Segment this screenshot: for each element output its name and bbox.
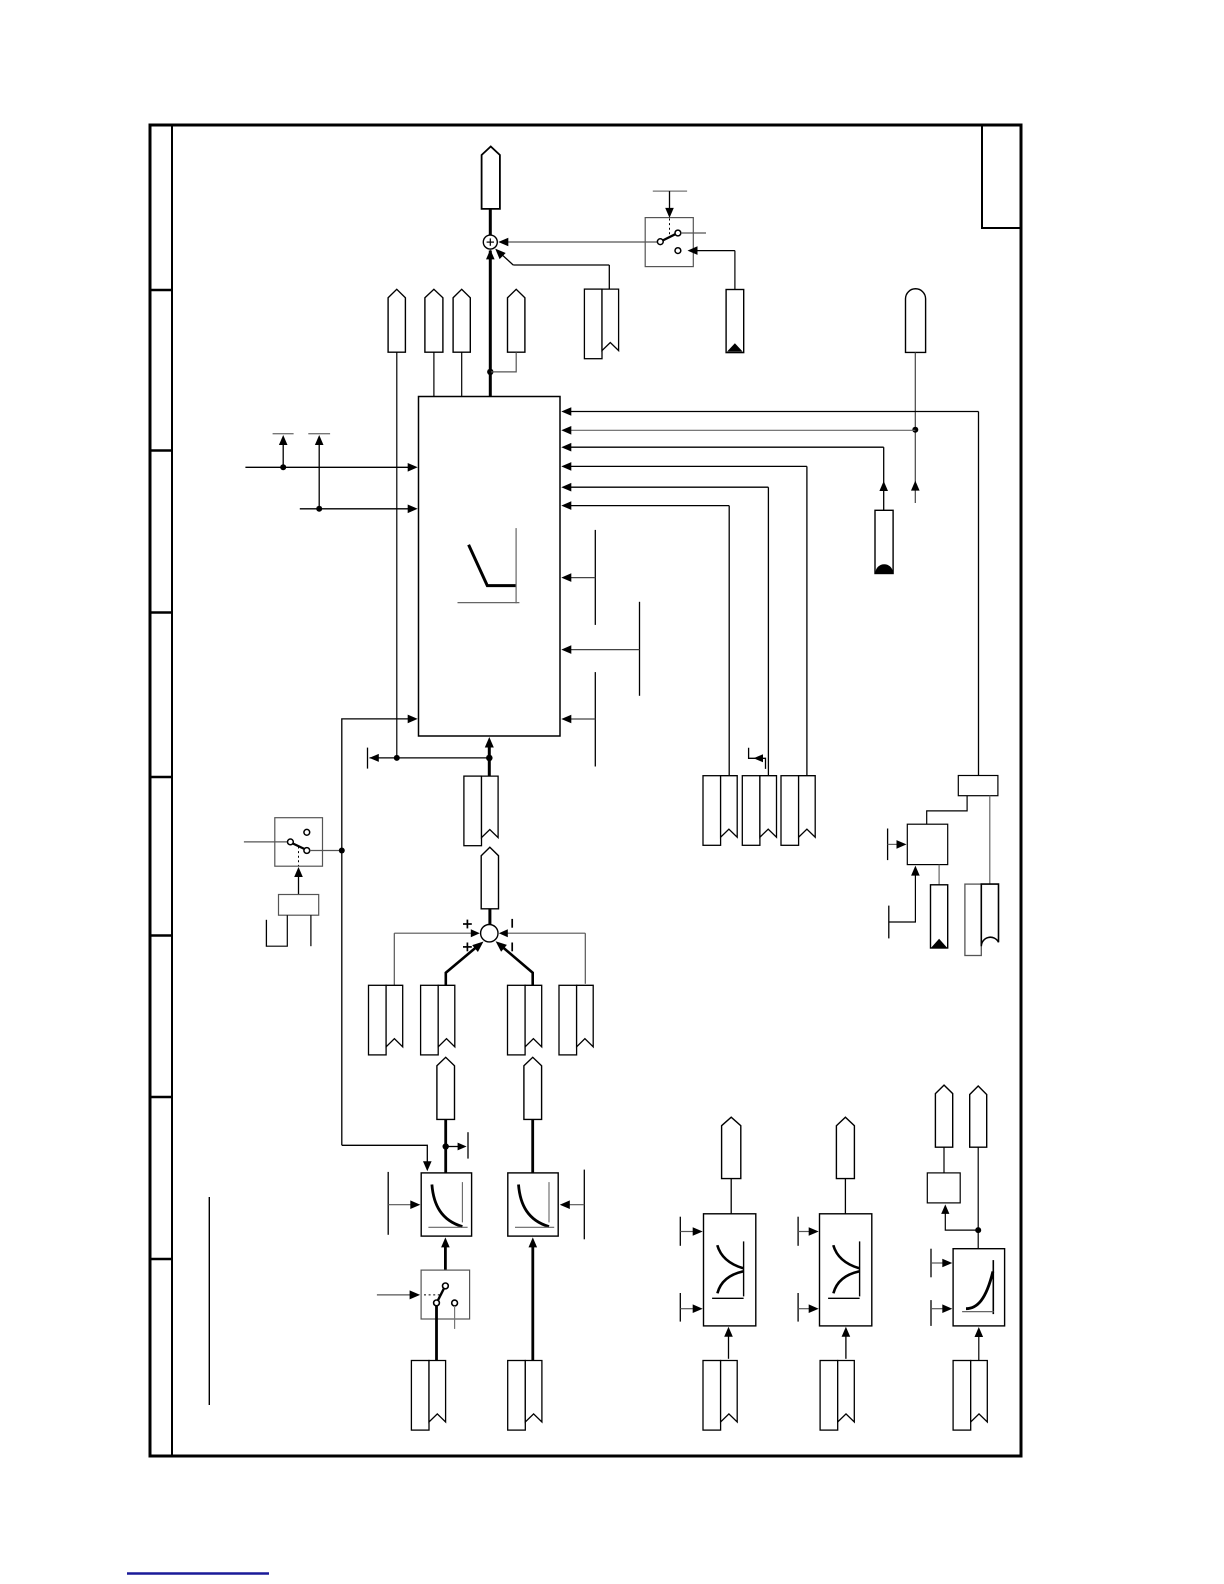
margin divider 7 <box>149 1258 172 1261</box>
wire T2 down with arrow stub <box>911 352 920 503</box>
wire K4 to block <box>461 352 463 396</box>
arch flag AF (connector) <box>965 884 999 955</box>
wire S2 output <box>310 848 345 854</box>
filter block FL1 <box>421 1173 471 1236</box>
parameter T-bar P12 <box>680 1217 702 1246</box>
top-right corner tab <box>982 126 1020 228</box>
tap wire to T-bar P8 <box>368 748 490 769</box>
wire flag G2 to SUM2 (diagonal) <box>446 942 484 986</box>
flag B1 (double flag to SUM1) <box>584 289 618 359</box>
flag G2 <box>421 985 455 1055</box>
wire K11 to box SQ <box>943 1147 945 1173</box>
switch S2 box <box>275 818 323 867</box>
switch S1 dashed control line <box>669 219 671 238</box>
flag B2 (double flag) <box>464 776 498 846</box>
flag H1 <box>411 1361 445 1431</box>
left margin column line <box>171 125 173 1456</box>
wire RG input r1 <box>561 407 978 775</box>
connector flag K6 <box>481 847 498 909</box>
wire SB to arch flag <box>989 796 991 884</box>
wire S2 to filter FL1 top <box>342 1145 432 1171</box>
wire flag G3 to SUM2 (diagonal) <box>496 941 533 985</box>
wire input line 1 to RG <box>245 463 417 472</box>
stray vertical line <box>208 1197 210 1405</box>
switch S3 contact b <box>434 1300 440 1306</box>
block M <box>907 824 947 864</box>
minus sign upper right <box>511 919 513 928</box>
wire flag J3 to EX <box>975 1327 984 1361</box>
wire into RG bottom <box>485 737 494 776</box>
switch S2 dashed control line <box>298 847 300 866</box>
flag J2 <box>820 1361 854 1431</box>
margin divider 6 <box>149 1096 172 1099</box>
wire input line 2 to RG <box>300 505 418 514</box>
wire RG input r5 <box>561 483 768 776</box>
wire flag B1 to SUM1 (diagonal) <box>495 249 609 290</box>
wire flag J2 to CH2 <box>842 1327 851 1359</box>
flag F_B <box>742 776 776 846</box>
FL1 decay curve <box>428 1182 467 1227</box>
wire flag J1 to CH1 <box>724 1327 733 1359</box>
parameter T-bar P16 <box>931 1249 952 1278</box>
tap to T-bar P9 <box>446 1132 468 1158</box>
switch S2 lever <box>293 844 305 850</box>
control arrow into S3 <box>377 1290 420 1299</box>
connector flag K11 <box>935 1085 952 1147</box>
switch S1 contact b <box>675 230 681 236</box>
margin divider 2 <box>149 449 172 452</box>
switch S3 dashed control line <box>424 1294 440 1296</box>
minus sign lower right <box>511 943 513 952</box>
switch S2 contact b <box>304 829 310 835</box>
ramp generator block RG <box>419 397 561 737</box>
ramp characteristic curve <box>458 528 520 603</box>
flag J1 <box>703 1361 737 1431</box>
wire K12 down to block EX <box>975 1147 981 1249</box>
wire K5 to main wire <box>491 352 516 372</box>
control box left terminal <box>266 915 287 947</box>
wire K8 to filter FL2 <box>531 1119 534 1173</box>
switch S3 contact a <box>443 1283 449 1289</box>
CH2 curves <box>828 1241 860 1298</box>
connector flag K7 <box>437 1057 455 1119</box>
EX curve <box>962 1260 994 1314</box>
flag G4 <box>559 985 593 1055</box>
wire K9 to block CH1 <box>730 1179 732 1214</box>
wire K1 to summing junction <box>489 209 492 236</box>
box SQ <box>927 1173 960 1203</box>
switch S1 output stub <box>681 232 706 234</box>
margin divider 3 <box>149 611 172 614</box>
parameter T-bar P1 <box>273 434 294 468</box>
plus sign lower left <box>463 943 472 952</box>
exponential block EX <box>953 1249 1005 1326</box>
connector T3 (rect with filled triangle) <box>931 885 948 948</box>
wire flag G1 to SUM2 <box>394 929 480 985</box>
summing junction SUM1 <box>483 235 497 249</box>
parameter T-bar P10 <box>388 1172 420 1235</box>
wire RG input r6 <box>561 501 729 775</box>
blue footer line <box>127 1572 269 1574</box>
connector flag K2 <box>388 289 405 352</box>
connector flag K12 <box>970 1086 987 1147</box>
margin divider 1 <box>149 289 172 292</box>
connector T1 (rect with filled triangle) <box>726 290 744 353</box>
control box right stub <box>310 915 312 946</box>
parameter T-bar P13 <box>680 1293 702 1322</box>
wire RG input r4 <box>561 462 807 776</box>
control T-bar P7 to block M <box>889 866 920 939</box>
parameter T-bar P11 <box>560 1170 585 1240</box>
parameter T-bar P14 <box>798 1217 819 1246</box>
switch S3 lever <box>438 1289 444 1301</box>
wire switch S1 to SUM1 <box>498 238 657 247</box>
parameter T-bar P17 <box>931 1300 952 1326</box>
parameter T-bar P6 <box>888 829 907 861</box>
switch S1 control T-bar <box>653 191 687 218</box>
wire RG input r2 <box>561 426 915 435</box>
wire S3 to FL1 <box>441 1237 450 1270</box>
connector flag K1 (output to other sheet) <box>482 147 500 209</box>
flag F_C <box>781 776 815 846</box>
connector flag K3 <box>425 289 443 352</box>
switch S1 contact c <box>675 248 681 254</box>
wire S2 to RG input <box>342 715 418 1146</box>
wire S3 to flag H1 <box>435 1306 438 1361</box>
wire SB to block M <box>927 796 967 825</box>
flag G3 <box>508 985 542 1055</box>
wire RG input r3 <box>561 443 888 510</box>
scaling box SB <box>958 776 998 796</box>
margin divider 5 <box>149 934 172 937</box>
tap hook near flag F_B <box>749 748 766 769</box>
junction dot on main setpoint wire <box>487 369 493 375</box>
connector flag K4 <box>453 289 470 352</box>
connector flag K10 <box>836 1117 854 1178</box>
wire big block output to SUM1 <box>486 249 495 396</box>
flag H2 <box>508 1361 542 1431</box>
parameter T-bar P2 <box>308 434 330 509</box>
FL2 decay curve <box>515 1182 554 1227</box>
parameter T-bar P15 <box>798 1293 819 1322</box>
wire K2 down <box>396 352 398 758</box>
filter block FL2 <box>508 1173 558 1236</box>
wire K3 to block <box>433 352 435 396</box>
connector T2 (round-top capsule) <box>906 289 926 353</box>
margin divider 4 <box>149 776 172 779</box>
parameter T-bar P5 <box>561 672 595 766</box>
switch S2 input stub <box>244 841 288 843</box>
characteristic block CH1 <box>704 1214 756 1326</box>
switch S2 contact c <box>304 848 310 854</box>
characteristic block CH2 <box>820 1214 872 1326</box>
plus sign upper left <box>463 920 472 929</box>
parameter T-bar P3 <box>561 530 595 625</box>
border frame <box>150 125 1021 1456</box>
wire block M to connector T3 <box>938 865 940 885</box>
wire connector T1 to switch S1 <box>688 246 735 289</box>
control arrow into S2 <box>294 867 303 895</box>
wire flag H2 to FL2 <box>529 1237 538 1360</box>
wire flag G4 to SUM2 <box>499 929 586 984</box>
switch S3 box <box>421 1270 470 1319</box>
control box CB <box>279 895 319 916</box>
wire K7 to filter FL1 <box>443 1119 449 1173</box>
flag J3 <box>953 1361 987 1431</box>
wire K6 to SUM2 <box>488 909 491 925</box>
connector flag K8 <box>524 1057 542 1119</box>
connector flag K9 <box>722 1117 741 1178</box>
summing junction SUM2 <box>481 925 498 942</box>
switch S3 contact c <box>452 1300 458 1306</box>
wire K10 to block CH2 <box>844 1179 846 1214</box>
parameter T-bar P4 <box>561 602 639 696</box>
indicator box D1 (dome) <box>875 510 893 573</box>
switch S1 contact a <box>657 239 663 245</box>
branch wire to SQ bottom <box>941 1204 978 1230</box>
CH1 curves <box>712 1241 744 1298</box>
switch S1 lever <box>663 234 675 240</box>
switch S1 box <box>645 218 693 267</box>
flag F_A <box>703 776 737 846</box>
switch S3 unused stub <box>454 1306 456 1329</box>
switch S2 contact a <box>288 839 294 845</box>
connector flag K5 <box>508 289 525 352</box>
flag G1 <box>369 985 403 1055</box>
